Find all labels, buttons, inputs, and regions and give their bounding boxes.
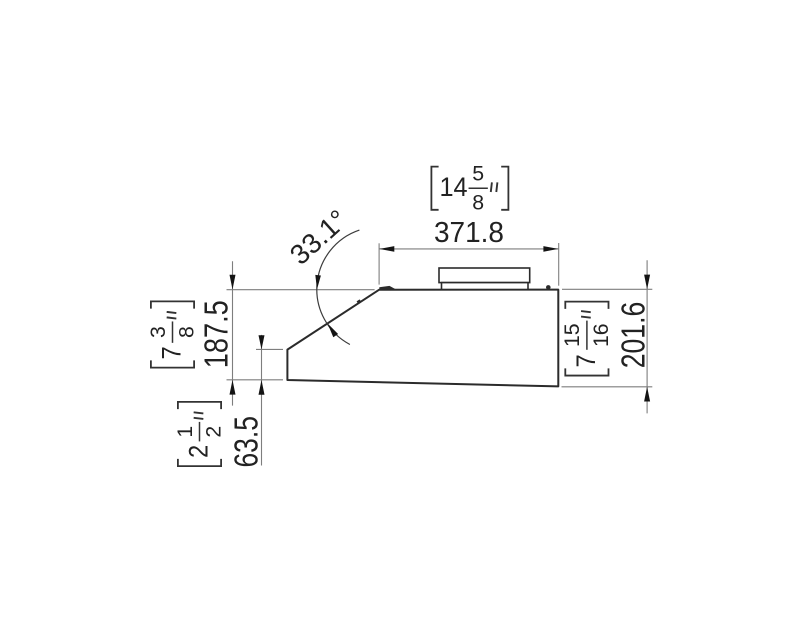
- dim 187.5 top arrowhead: [230, 275, 236, 290]
- dim 63.5 dimension line: [261, 335, 263, 466]
- dim 371.8 left arrowhead: [379, 246, 394, 252]
- svg-text:14: 14: [440, 172, 468, 202]
- small nub on slant face: [357, 300, 360, 302]
- dim 371.8 dimension line: [379, 248, 559, 250]
- dim 371.8 extension line left: [378, 243, 380, 284]
- duct collar outer box: [439, 268, 530, 283]
- svg-text:8: 8: [472, 190, 484, 214]
- svg-text:2: 2: [183, 445, 213, 458]
- dim 187.5 extension line bottom: [227, 379, 284, 381]
- svg-text:187.5: 187.5: [198, 300, 235, 368]
- dim 201.6 extension line top: [562, 288, 652, 290]
- dim 371.8 right arrowhead: [543, 246, 558, 252]
- dim 201.6 extension line bottom: [562, 386, 653, 388]
- dim 201.6 bottom arrowhead: [644, 387, 650, 402]
- svg-text:16: 16: [589, 323, 613, 347]
- dim 187.5 extension line top: [227, 289, 375, 291]
- angle dim arrowhead at horizontal line: [315, 275, 321, 290]
- svg-text:371.8: 371.8: [434, 217, 504, 249]
- dim 63.5 extension line top: [256, 348, 283, 350]
- svg-text:7: 7: [571, 354, 601, 367]
- hood body outline: [287, 290, 558, 387]
- duct collar base: [442, 283, 529, 290]
- dim 63.5 top arrowhead: [259, 335, 265, 349]
- svg-text:3: 3: [146, 326, 170, 338]
- bracket label [7 3/8 in] (rotated): [146, 301, 199, 367]
- svg-text:2: 2: [202, 426, 226, 438]
- svg-text:63.5: 63.5: [228, 416, 265, 468]
- dim 201.6 top arrowhead: [644, 275, 650, 290]
- rivet dot near right edge: [546, 285, 551, 289]
- svg-text:1: 1: [173, 426, 197, 438]
- svg-text:8: 8: [175, 326, 199, 338]
- dim 187.5 dimension line: [232, 261, 234, 405]
- svg-text:15: 15: [560, 323, 584, 347]
- dim 371.8 extension line right: [558, 243, 560, 286]
- angle dim arrowhead at slant line: [328, 323, 339, 337]
- angle dim arc: [317, 230, 360, 344]
- bracket label [7 15/16 in] (rotated): [560, 302, 613, 376]
- bracket label [14 5/8 in]: [431, 162, 508, 215]
- svg-text:7: 7: [156, 346, 186, 359]
- svg-text:201.6: 201.6: [614, 302, 651, 369]
- bracket label [2 1/2 in] (rotated): [173, 402, 226, 466]
- dim 201.6 dimension line: [646, 260, 648, 413]
- damper nub near apex: [379, 286, 397, 290]
- dim 63.5 bottom arrowhead: [259, 380, 265, 395]
- dim 187.5 bottom arrowhead: [230, 380, 236, 395]
- svg-text:5: 5: [472, 162, 484, 186]
